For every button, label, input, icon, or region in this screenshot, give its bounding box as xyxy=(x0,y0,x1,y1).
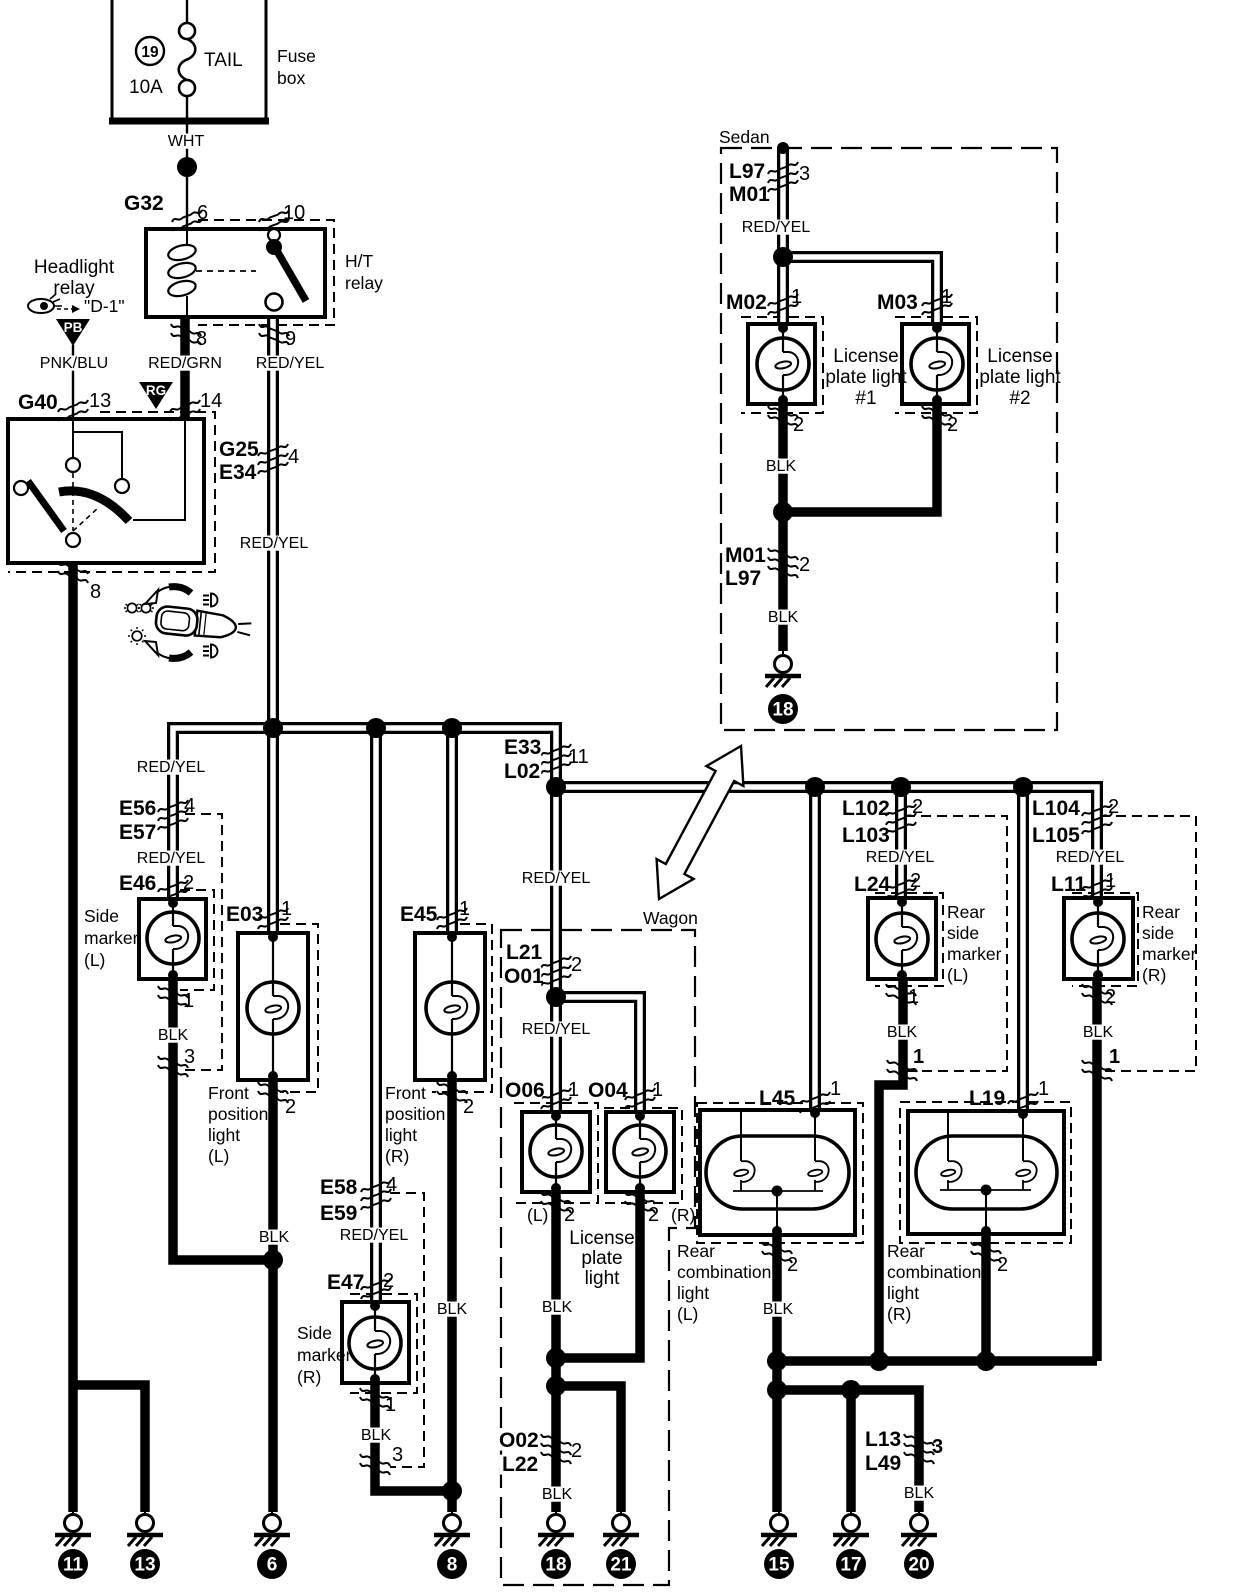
svg-text:(L): (L) xyxy=(677,1304,698,1324)
svg-text:(R): (R) xyxy=(385,1146,409,1166)
svg-text:2: 2 xyxy=(285,1096,296,1118)
svg-text:light: light xyxy=(385,1125,417,1145)
svg-text:10: 10 xyxy=(283,202,305,224)
svg-text:RED/YEL: RED/YEL xyxy=(742,219,811,236)
svg-text:E59: E59 xyxy=(320,1202,357,1225)
svg-text:position: position xyxy=(385,1104,445,1124)
svg-text:RED/YEL: RED/YEL xyxy=(1056,849,1125,866)
svg-text:13: 13 xyxy=(89,390,111,412)
svg-text:L105: L105 xyxy=(1032,824,1080,847)
svg-text:(L): (L) xyxy=(527,1205,548,1225)
svg-text:Wagon: Wagon xyxy=(643,908,698,928)
svg-text:M01: M01 xyxy=(729,183,770,206)
svg-text:1: 1 xyxy=(913,1046,924,1068)
svg-text:3: 3 xyxy=(799,163,810,185)
svg-text:1: 1 xyxy=(652,1079,663,1101)
svg-text:O02: O02 xyxy=(499,1429,539,1452)
svg-text:(R): (R) xyxy=(671,1205,695,1225)
svg-text:M03: M03 xyxy=(877,291,918,314)
svg-text:(R): (R) xyxy=(887,1304,911,1324)
svg-text:4: 4 xyxy=(386,1174,397,1196)
svg-text:E46: E46 xyxy=(119,872,156,895)
svg-text:15: 15 xyxy=(768,1555,790,1576)
svg-text:E03: E03 xyxy=(226,903,263,926)
svg-text:PNK/BLU: PNK/BLU xyxy=(40,355,108,372)
svg-text:18: 18 xyxy=(545,1555,566,1576)
svg-text:1: 1 xyxy=(830,1078,841,1100)
svg-text:box: box xyxy=(277,68,305,88)
svg-text:3: 3 xyxy=(184,1046,195,1068)
svg-text:2: 2 xyxy=(799,554,810,576)
svg-text:2: 2 xyxy=(997,1254,1008,1276)
svg-text:Rear: Rear xyxy=(1142,902,1180,922)
svg-text:9: 9 xyxy=(285,328,296,350)
svg-text:3: 3 xyxy=(392,1444,403,1466)
svg-text:RED/YEL: RED/YEL xyxy=(340,1227,409,1244)
svg-text:RED/GRN: RED/GRN xyxy=(148,355,222,372)
svg-text:Rear: Rear xyxy=(947,902,985,922)
svg-text:relay: relay xyxy=(345,273,383,293)
svg-text:BLK: BLK xyxy=(542,1486,573,1503)
svg-text:2: 2 xyxy=(947,414,958,436)
svg-text:Sedan: Sedan xyxy=(719,127,770,147)
svg-text:2: 2 xyxy=(1108,796,1119,818)
svg-text:RED/YEL: RED/YEL xyxy=(137,759,206,776)
svg-text:E33: E33 xyxy=(504,736,541,759)
svg-text:WHT: WHT xyxy=(168,133,205,150)
svg-text:RED/YEL: RED/YEL xyxy=(256,355,325,372)
svg-text:2: 2 xyxy=(183,872,194,894)
svg-text:light: light xyxy=(585,1268,621,1289)
svg-text:plate: plate xyxy=(581,1248,622,1269)
svg-text:combination: combination xyxy=(677,1262,771,1282)
svg-text:20: 20 xyxy=(908,1555,929,1576)
svg-text:17: 17 xyxy=(840,1555,861,1576)
svg-text:2: 2 xyxy=(648,1204,659,1226)
svg-text:L102: L102 xyxy=(842,797,890,820)
svg-text:plate light: plate light xyxy=(825,367,907,388)
svg-text:Front: Front xyxy=(208,1083,249,1103)
svg-text:4: 4 xyxy=(288,446,299,468)
svg-text:plate light: plate light xyxy=(979,367,1061,388)
svg-text:1: 1 xyxy=(183,990,194,1012)
svg-text:O04: O04 xyxy=(588,1079,628,1102)
svg-text:1: 1 xyxy=(791,286,802,308)
svg-text:side: side xyxy=(1142,923,1174,943)
svg-text:L02: L02 xyxy=(504,760,540,783)
svg-text:11: 11 xyxy=(568,746,589,768)
svg-text:BLK: BLK xyxy=(1083,1024,1114,1041)
svg-text:Rear: Rear xyxy=(677,1241,715,1261)
svg-text:BLK: BLK xyxy=(766,458,797,475)
svg-text:2: 2 xyxy=(1105,986,1116,1008)
svg-text:M02: M02 xyxy=(726,291,767,314)
svg-text:8: 8 xyxy=(447,1555,458,1576)
svg-text:11: 11 xyxy=(63,1555,84,1576)
svg-text:8: 8 xyxy=(90,581,101,603)
svg-text:(L): (L) xyxy=(84,950,105,970)
svg-text:Fuse: Fuse xyxy=(277,46,316,66)
svg-text:RG: RG xyxy=(146,383,166,398)
svg-text:2: 2 xyxy=(463,1096,474,1118)
svg-text:License: License xyxy=(987,346,1053,367)
svg-text:BLK: BLK xyxy=(437,1301,468,1318)
svg-text:6: 6 xyxy=(197,202,208,224)
svg-text:1: 1 xyxy=(1038,1078,1049,1100)
svg-text:1: 1 xyxy=(281,898,292,920)
svg-text:18: 18 xyxy=(772,700,793,721)
svg-text:light: light xyxy=(677,1283,709,1303)
svg-text:1: 1 xyxy=(568,1079,579,1101)
svg-text:E57: E57 xyxy=(119,821,156,844)
svg-text:2: 2 xyxy=(910,870,921,892)
svg-text:O06: O06 xyxy=(505,1079,545,1102)
svg-text:L13: L13 xyxy=(865,1428,901,1451)
svg-text:TAIL: TAIL xyxy=(204,50,243,71)
svg-text:RED/YEL: RED/YEL xyxy=(866,849,935,866)
svg-text:E34: E34 xyxy=(219,461,257,484)
svg-text:2: 2 xyxy=(571,954,582,976)
svg-text:1: 1 xyxy=(385,1394,396,1416)
svg-text:8: 8 xyxy=(196,328,207,350)
svg-text:L45: L45 xyxy=(759,1087,796,1110)
svg-text:O01: O01 xyxy=(504,965,544,988)
svg-text:marker: marker xyxy=(947,944,1002,964)
svg-text:light: light xyxy=(887,1283,919,1303)
svg-text:License: License xyxy=(569,1228,635,1249)
svg-text:License: License xyxy=(833,346,899,367)
svg-text:L11: L11 xyxy=(1051,873,1086,896)
svg-text:E45: E45 xyxy=(400,903,438,926)
svg-text:1: 1 xyxy=(908,986,919,1008)
svg-text:BLK: BLK xyxy=(259,1229,290,1246)
svg-text:L24: L24 xyxy=(854,873,891,896)
svg-text:RED/YEL: RED/YEL xyxy=(522,870,591,887)
svg-text:2: 2 xyxy=(571,1440,582,1462)
svg-text:2: 2 xyxy=(383,1270,394,1292)
svg-text:1: 1 xyxy=(941,286,952,308)
svg-text:L97: L97 xyxy=(725,567,761,590)
svg-text:L104: L104 xyxy=(1032,797,1080,820)
svg-text:G32: G32 xyxy=(124,192,164,215)
svg-text:position: position xyxy=(208,1104,268,1124)
svg-text:RED/YEL: RED/YEL xyxy=(137,850,206,867)
svg-text:G40: G40 xyxy=(18,391,58,414)
svg-text:Side: Side xyxy=(84,906,119,926)
svg-text:14: 14 xyxy=(200,390,222,412)
svg-text:E58: E58 xyxy=(320,1176,358,1199)
svg-text:BLK: BLK xyxy=(158,1027,189,1044)
svg-text:marker: marker xyxy=(84,928,139,948)
svg-text:(R): (R) xyxy=(297,1367,321,1387)
svg-text:L97: L97 xyxy=(729,160,765,183)
svg-text:light: light xyxy=(208,1125,240,1145)
svg-text:L21: L21 xyxy=(506,941,543,964)
svg-text:RED/YEL: RED/YEL xyxy=(240,535,309,552)
svg-text:E47: E47 xyxy=(327,1271,364,1294)
svg-text:BLK: BLK xyxy=(361,1427,392,1444)
svg-text:Headlight: Headlight xyxy=(34,257,115,278)
svg-text:marker: marker xyxy=(297,1345,352,1365)
svg-text:G25: G25 xyxy=(219,438,259,461)
svg-text:L19: L19 xyxy=(969,1087,1005,1110)
svg-text:#1: #1 xyxy=(855,388,876,409)
svg-text:1: 1 xyxy=(1109,1046,1120,1068)
svg-text:"D-1": "D-1" xyxy=(84,296,125,316)
svg-text:2: 2 xyxy=(912,796,923,818)
svg-text:M01: M01 xyxy=(725,544,766,567)
svg-text:(L): (L) xyxy=(947,965,968,985)
svg-text:H/T: H/T xyxy=(345,251,374,271)
svg-text:L49: L49 xyxy=(865,1452,901,1475)
svg-text:BLK: BLK xyxy=(542,1299,573,1316)
svg-text:6: 6 xyxy=(267,1555,278,1576)
svg-text:1: 1 xyxy=(459,898,470,920)
svg-text:2: 2 xyxy=(787,1254,798,1276)
svg-text:combination: combination xyxy=(887,1262,981,1282)
svg-text:RED/YEL: RED/YEL xyxy=(522,1021,591,1038)
svg-text:BLK: BLK xyxy=(763,1301,794,1318)
svg-text:3: 3 xyxy=(932,1436,943,1458)
svg-text:Side: Side xyxy=(297,1323,332,1343)
svg-text:BLK: BLK xyxy=(768,609,799,626)
svg-text:#2: #2 xyxy=(1009,388,1030,409)
svg-text:side: side xyxy=(947,923,979,943)
svg-text:13: 13 xyxy=(134,1555,155,1576)
svg-text:10A: 10A xyxy=(129,77,163,98)
svg-text:1: 1 xyxy=(1105,870,1116,892)
svg-text:marker: marker xyxy=(1142,944,1197,964)
svg-text:(R): (R) xyxy=(1142,965,1166,985)
svg-text:19: 19 xyxy=(141,44,159,61)
svg-text:2: 2 xyxy=(793,414,804,436)
svg-text:L103: L103 xyxy=(842,824,890,847)
svg-text:PB: PB xyxy=(64,320,83,335)
svg-text:BLK: BLK xyxy=(887,1024,918,1041)
svg-text:21: 21 xyxy=(610,1555,632,1576)
svg-text:2: 2 xyxy=(564,1204,575,1226)
svg-text:Rear: Rear xyxy=(887,1241,925,1261)
svg-text:L22: L22 xyxy=(502,1453,538,1476)
svg-text:4: 4 xyxy=(184,795,195,817)
svg-text:BLK: BLK xyxy=(904,1485,935,1502)
svg-text:(L): (L) xyxy=(208,1146,229,1166)
svg-text:Front: Front xyxy=(385,1083,426,1103)
svg-text:E56: E56 xyxy=(119,797,156,820)
